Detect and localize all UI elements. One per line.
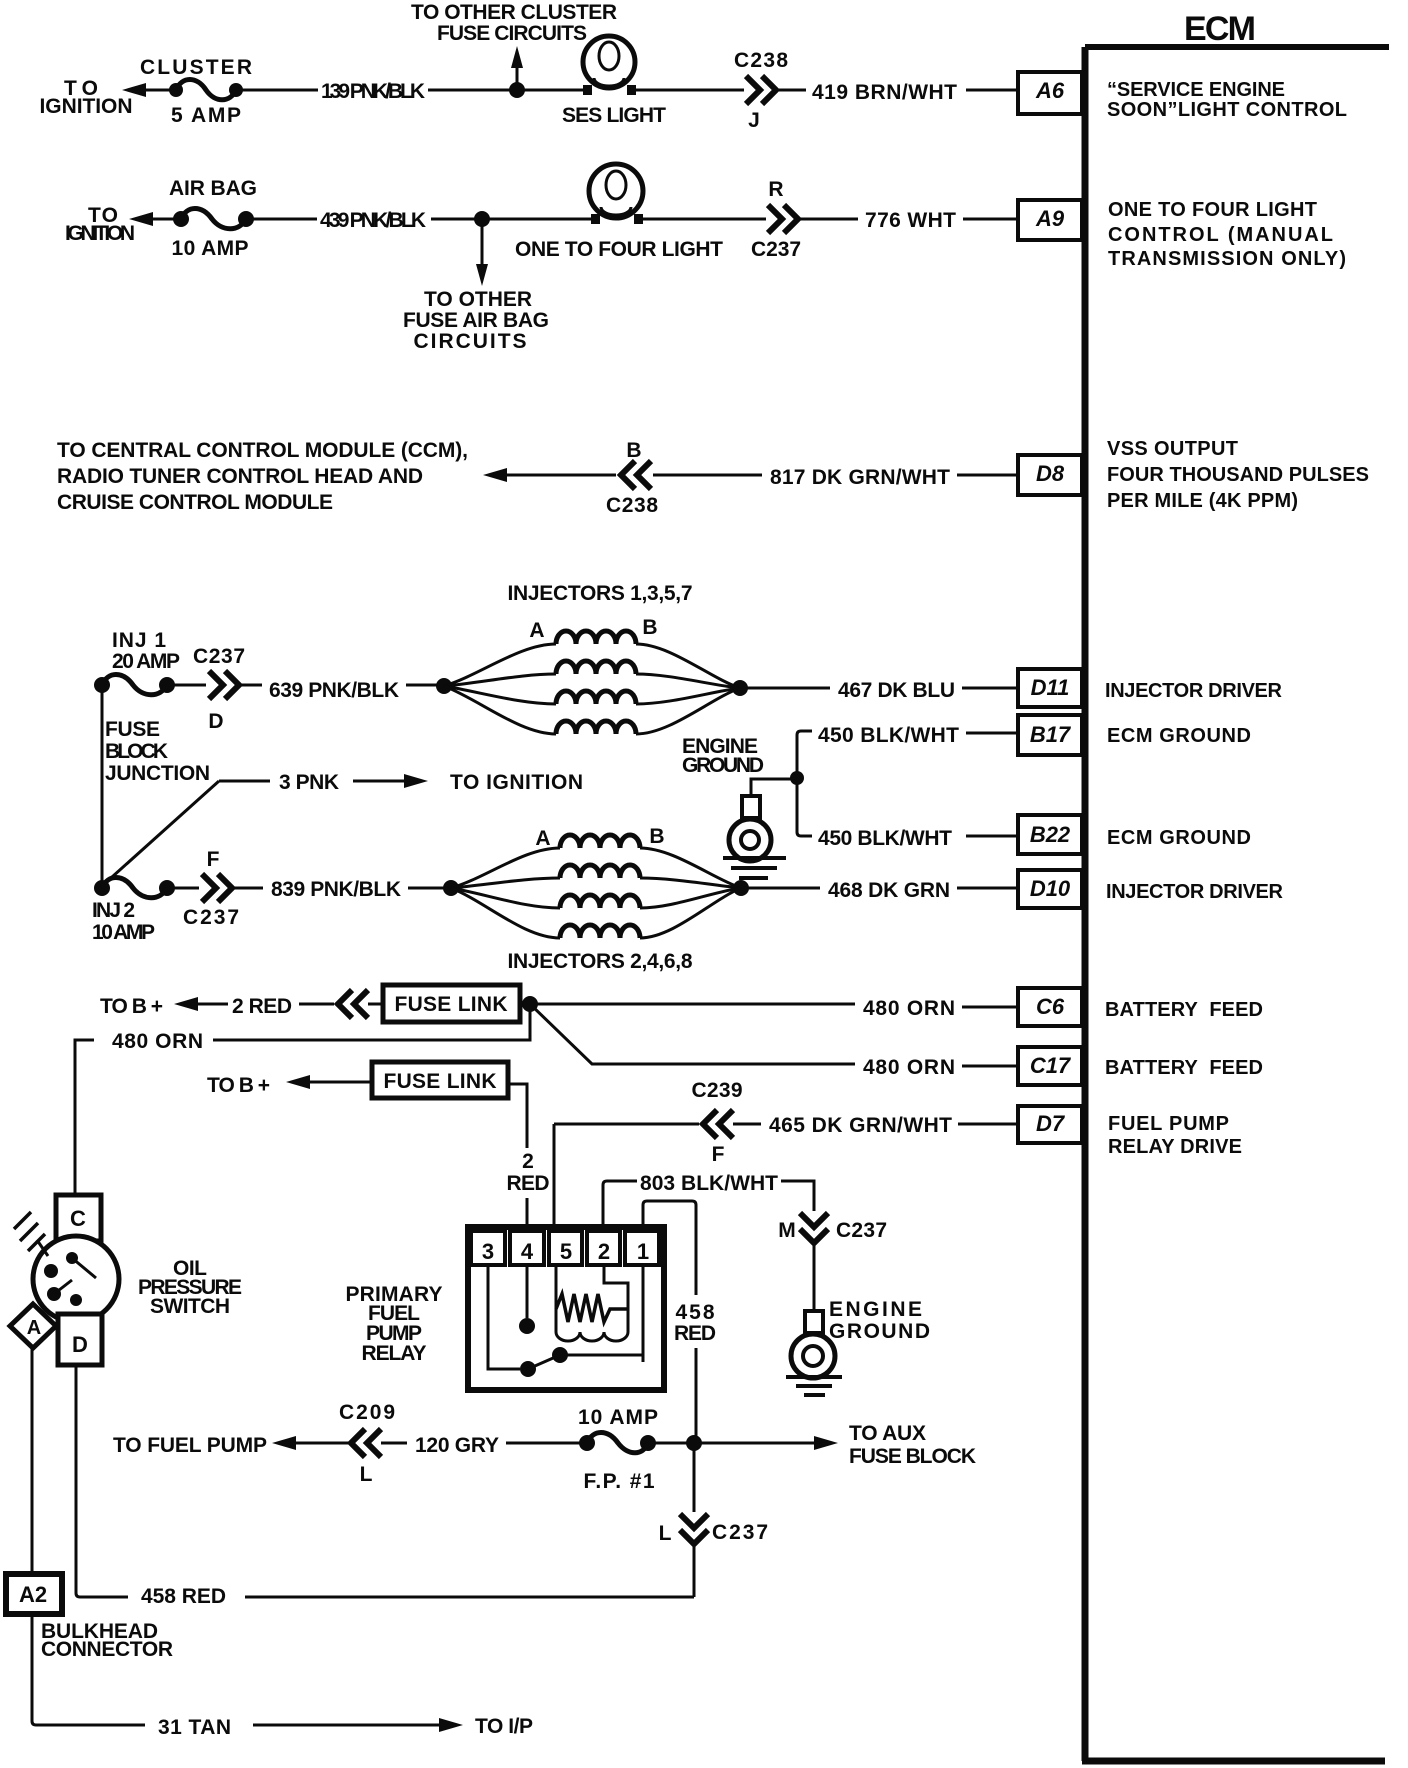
wire 776 WHT bbox=[800, 209, 1016, 232]
ECM module box bbox=[1082, 10, 1389, 1761]
svg-text:ECM GROUND: ECM GROUND bbox=[1107, 827, 1251, 849]
fuse link FUSE LINK (C6 feed) bbox=[368, 985, 520, 1022]
wire 817 DK GRN/WHT bbox=[653, 466, 1016, 489]
wire 450 BLK/WHT to B22 with ground bracket bbox=[751, 735, 1016, 850]
connector C237 pin F bbox=[167, 848, 239, 929]
svg-text:BLOCK: BLOCK bbox=[105, 740, 168, 763]
relay internal: pin 3 to switch contact bbox=[488, 1265, 536, 1377]
svg-text:IGNITION: IGNITION bbox=[40, 95, 133, 118]
svg-text:A: A bbox=[535, 827, 550, 850]
wire SES lamp to connector C238 bbox=[636, 89, 744, 92]
wire from TO IGNITION arrow to fuse AIR BAG bbox=[151, 218, 181, 221]
svg-text:INJECTOR DRIVER: INJECTOR DRIVER bbox=[1106, 881, 1284, 903]
svg-text:B: B bbox=[649, 825, 664, 848]
wire 803 BLK/WHT bbox=[603, 1172, 814, 1230]
ECM pin B17 bbox=[1018, 715, 1082, 755]
svg-text:4: 4 bbox=[521, 1239, 534, 1264]
wire from D7 corner down to relay pin 5 bbox=[553, 1124, 556, 1230]
svg-text:FUSE AIR BAG: FUSE AIR BAG bbox=[403, 309, 549, 332]
svg-text:TO OTHER: TO OTHER bbox=[424, 288, 532, 311]
ground ENGINE GROUND (injector) bbox=[682, 735, 786, 878]
svg-text:INJ 2: INJ 2 bbox=[92, 899, 135, 922]
svg-text:INJECTOR DRIVER: INJECTOR DRIVER bbox=[1105, 680, 1283, 702]
svg-text:480 ORN: 480 ORN bbox=[863, 1056, 955, 1079]
junction node to other fuse air bag circuits bbox=[403, 211, 549, 353]
svg-text:10 AMP: 10 AMP bbox=[578, 1406, 658, 1429]
wire 2 RED bbox=[232, 995, 334, 1018]
svg-text:CRUISE CONTROL MODULE: CRUISE CONTROL MODULE bbox=[57, 491, 333, 514]
svg-text:2: 2 bbox=[522, 1150, 534, 1173]
svg-text:ENGINE: ENGINE bbox=[829, 1298, 922, 1321]
svg-text:1: 1 bbox=[637, 1239, 649, 1264]
svg-text:480 ORN: 480 ORN bbox=[112, 1030, 203, 1053]
svg-text:TO B +: TO B + bbox=[207, 1074, 270, 1097]
svg-text:10 AMP: 10 AMP bbox=[92, 921, 155, 944]
ECM pin D11 bbox=[1018, 669, 1082, 707]
svg-text:“SERVICE ENGINE: “SERVICE ENGINE bbox=[1107, 79, 1285, 101]
wire 3 PNK to ignition bbox=[219, 771, 583, 794]
connector C209 pin L bbox=[339, 1401, 395, 1486]
svg-text:VSS OUTPUT: VSS OUTPUT bbox=[1107, 438, 1238, 460]
wire 467 DK BLU bbox=[740, 679, 1016, 702]
svg-text:PER MILE (4K PPM): PER MILE (4K PPM) bbox=[1107, 490, 1298, 512]
junction node battery feed bbox=[522, 996, 538, 1012]
node TO IGNITION (row 2) bbox=[65, 204, 153, 245]
svg-text:BATTERY FEED: BATTERY FEED bbox=[1105, 1057, 1263, 1079]
wire 2 RED down to relay pin 4 bbox=[507, 1084, 550, 1230]
node TO B+ (fuel pump relay feed) bbox=[207, 1074, 372, 1097]
svg-text:FUSE CIRCUITS: FUSE CIRCUITS bbox=[437, 22, 587, 45]
node TO CENTRAL CONTROL MODULE (CCM) bbox=[57, 439, 468, 514]
wire 120 GRY bbox=[381, 1434, 587, 1457]
wire 468 DK GRN bbox=[741, 879, 1018, 902]
relay pin 4 bbox=[510, 1231, 544, 1265]
svg-text:D10: D10 bbox=[1030, 876, 1071, 901]
ECM pin D7 bbox=[1018, 1106, 1082, 1143]
oil pressure switch terminal C box bbox=[56, 1195, 101, 1241]
injector coil group 2,4,6,8 between nodes A and B bbox=[443, 825, 749, 938]
wire from chevron L down to 458 RED run bbox=[693, 1546, 696, 1597]
fuse INJ 2 10 AMP bbox=[92, 878, 175, 945]
svg-text:458 RED: 458 RED bbox=[141, 1585, 226, 1608]
svg-text:FUSE BLOCK: FUSE BLOCK bbox=[849, 1445, 976, 1468]
svg-text:A: A bbox=[529, 619, 544, 642]
svg-text:31 TAN: 31 TAN bbox=[158, 1716, 231, 1739]
svg-text:ECM: ECM bbox=[1184, 10, 1256, 48]
svg-text:C238: C238 bbox=[606, 494, 658, 517]
fuse link FUSE LINK (relay feed) bbox=[372, 1062, 508, 1098]
svg-text:639 PNK/BLK: 639 PNK/BLK bbox=[269, 679, 399, 702]
svg-text:RED: RED bbox=[507, 1172, 550, 1195]
svg-text:D7: D7 bbox=[1036, 1111, 1066, 1136]
oil pressure switch terminal A diamond bbox=[10, 1304, 56, 1348]
svg-text:TO I/P: TO I/P bbox=[475, 1715, 533, 1738]
svg-text:458: 458 bbox=[676, 1301, 715, 1324]
lamp SES LIGHT bbox=[562, 36, 666, 127]
svg-text:D: D bbox=[208, 710, 223, 733]
svg-text:A2: A2 bbox=[19, 1582, 47, 1607]
svg-text:5: 5 bbox=[560, 1239, 572, 1264]
wire from TO IGNITION arrow to fuse CLUSTER bbox=[144, 89, 176, 92]
wire 480 ORN to C6 bbox=[530, 997, 1016, 1020]
connector A2 BULKHEAD CONNECTOR bbox=[6, 1574, 173, 1661]
ECM pin A9 bbox=[1018, 200, 1082, 240]
svg-text:ONE TO FOUR LIGHT: ONE TO FOUR LIGHT bbox=[515, 238, 723, 261]
wire 439 PNK/BLK bbox=[246, 209, 595, 232]
wire VSS output to CCM with left arrow bbox=[483, 468, 616, 482]
svg-text:B: B bbox=[626, 439, 641, 462]
ECM pin B22 bbox=[1018, 815, 1082, 854]
wire fuel pump relay drive from D7 bbox=[554, 1079, 1017, 1166]
relay internal: switch arm to pin 1 contact bbox=[528, 1265, 643, 1369]
connector C238 pin J bbox=[734, 49, 788, 132]
svg-text:FUSE: FUSE bbox=[105, 718, 160, 741]
wire 31 TAN to I/P bbox=[32, 1614, 533, 1739]
svg-text:C239: C239 bbox=[692, 1079, 743, 1102]
fuse AIR BAG 10 AMP bbox=[169, 177, 257, 260]
svg-text:SES LIGHT: SES LIGHT bbox=[562, 104, 666, 127]
connector C237 pin M bbox=[778, 1213, 887, 1243]
label ONE TO FOUR LIGHT CONTROL bbox=[1108, 199, 1346, 270]
svg-text:803 BLK/WHT: 803 BLK/WHT bbox=[640, 1172, 778, 1195]
wire 839 PNK/BLK bbox=[234, 878, 451, 901]
fuse F.P. #1 10 AMP bbox=[578, 1406, 658, 1493]
svg-text:GROUND: GROUND bbox=[829, 1320, 930, 1343]
svg-text:CIRCUITS: CIRCUITS bbox=[414, 330, 527, 353]
svg-text:TO B +: TO B + bbox=[100, 995, 163, 1018]
svg-text:RELAY: RELAY bbox=[362, 1342, 427, 1365]
wire 139 PNK/BLK bbox=[236, 80, 587, 103]
oil pressure switch terminal D box bbox=[58, 1314, 102, 1365]
relay pin 3 bbox=[471, 1231, 505, 1265]
oil pressure switch case hash marks bbox=[14, 1212, 48, 1256]
junction node to other cluster fuse circuits bbox=[411, 1, 617, 98]
wire TO AUX FUSE BLOCK with right arrow bbox=[694, 1422, 976, 1468]
svg-text:AIR BAG: AIR BAG bbox=[169, 177, 257, 200]
svg-text:L: L bbox=[360, 1463, 373, 1486]
connector C237 pin D bbox=[167, 645, 245, 733]
svg-text:120 GRY: 120 GRY bbox=[415, 1434, 499, 1457]
svg-text:ONE TO FOUR LIGHT: ONE TO FOUR LIGHT bbox=[1108, 199, 1317, 221]
svg-text:A6: A6 bbox=[1035, 78, 1065, 103]
wire 458 RED bottom run to bulkhead bbox=[76, 1365, 694, 1608]
svg-text:A: A bbox=[27, 1317, 41, 1339]
svg-text:RADIO TUNER CONTROL HEAD AND: RADIO TUNER CONTROL HEAD AND bbox=[57, 465, 423, 488]
relay pin 1 bbox=[625, 1231, 659, 1265]
svg-text:TO FUEL PUMP: TO FUEL PUMP bbox=[113, 1434, 267, 1457]
svg-text:JUNCTION: JUNCTION bbox=[105, 762, 210, 785]
svg-text:SWITCH: SWITCH bbox=[150, 1295, 230, 1318]
svg-text:TO IGNITION: TO IGNITION bbox=[450, 771, 583, 794]
svg-text:2 RED: 2 RED bbox=[232, 995, 292, 1018]
ECM pin C6 bbox=[1018, 988, 1082, 1026]
svg-text:468 DK GRN: 468 DK GRN bbox=[828, 879, 950, 902]
svg-text:INJECTORS 2,4,6,8: INJECTORS 2,4,6,8 bbox=[508, 950, 693, 973]
svg-text:RELAY DRIVE: RELAY DRIVE bbox=[1108, 1136, 1242, 1158]
svg-text:FUSE LINK: FUSE LINK bbox=[384, 1070, 497, 1093]
svg-text:ECM GROUND: ECM GROUND bbox=[1107, 725, 1251, 747]
wire 480 ORN to C17 (diagonal from junction) bbox=[530, 1004, 1016, 1079]
svg-text:TO OTHER CLUSTER: TO OTHER CLUSTER bbox=[411, 1, 617, 24]
svg-text:B22: B22 bbox=[1030, 822, 1071, 847]
svg-text:10 AMP: 10 AMP bbox=[172, 237, 249, 260]
svg-text:C237: C237 bbox=[751, 238, 801, 261]
wire 458 RED from relay pin 1 down bbox=[643, 1201, 716, 1443]
svg-text:C17: C17 bbox=[1030, 1053, 1072, 1078]
svg-text:J: J bbox=[748, 109, 760, 132]
injector coil group 1,3,5,7 between nodes A and B bbox=[436, 616, 748, 734]
wire 480 ORN down the left side to oil pressure switch bbox=[75, 1004, 530, 1195]
svg-text:F: F bbox=[712, 1143, 725, 1166]
ECM pin A6 bbox=[1018, 72, 1082, 114]
label FUEL PUMP RELAY DRIVE bbox=[1108, 1113, 1242, 1158]
svg-text:TRANSMISSION ONLY): TRANSMISSION ONLY) bbox=[1108, 248, 1346, 270]
svg-text:FUEL PUMP: FUEL PUMP bbox=[1108, 1113, 1229, 1135]
svg-text:419 BRN/WHT: 419 BRN/WHT bbox=[812, 81, 957, 104]
svg-text:FOUR THOUSAND PULSES: FOUR THOUSAND PULSES bbox=[1107, 464, 1369, 486]
connector C237 pin R bbox=[751, 178, 801, 261]
svg-text:B17: B17 bbox=[1030, 722, 1072, 747]
junction node 458 RED / fuse / aux feed bbox=[648, 1435, 702, 1451]
svg-text:B: B bbox=[642, 616, 657, 639]
label "SERVICE ENGINE SOON" LIGHT CONTROL bbox=[1107, 79, 1347, 121]
relay internal: pin 4 armature lead with dot bbox=[519, 1265, 535, 1334]
connector C238 pin B bbox=[606, 439, 658, 517]
svg-text:C: C bbox=[70, 1206, 86, 1231]
lamp ONE TO FOUR LIGHT bbox=[515, 164, 723, 261]
svg-text:GROUND: GROUND bbox=[682, 754, 764, 777]
svg-text:139 PNK/BLK: 139 PNK/BLK bbox=[321, 80, 425, 103]
fuse CLUSTER 5 AMP bbox=[140, 56, 252, 127]
node TO B+ (battery feed row) bbox=[100, 995, 228, 1018]
fuse INJ 1 20 AMP bbox=[94, 629, 180, 695]
svg-text:D8: D8 bbox=[1036, 461, 1065, 486]
relay PRIMARY FUEL PUMP RELAY bbox=[346, 1227, 665, 1390]
wire 419 BRN/WHT bbox=[779, 81, 1016, 104]
svg-text:C238: C238 bbox=[734, 49, 788, 72]
svg-text:CONTROL (MANUAL: CONTROL (MANUAL bbox=[1108, 224, 1333, 246]
svg-text:817 DK GRN/WHT: 817 DK GRN/WHT bbox=[770, 466, 950, 489]
wire oil switch A terminal down to bulkhead connector A2 bbox=[31, 1348, 34, 1572]
wire lamp to connector C237 bbox=[643, 218, 766, 221]
svg-text:R: R bbox=[768, 178, 783, 201]
svg-text:C209: C209 bbox=[339, 1401, 395, 1424]
svg-text:TO CENTRAL CONTROL MODULE (CCM: TO CENTRAL CONTROL MODULE (CCM), bbox=[57, 439, 468, 462]
svg-text:INJECTORS 1,3,5,7: INJECTORS 1,3,5,7 bbox=[508, 582, 693, 605]
svg-text:467 DK BLU: 467 DK BLU bbox=[838, 679, 955, 702]
svg-text:D: D bbox=[72, 1332, 88, 1357]
node TO IGNITION (row 1) bbox=[40, 77, 147, 118]
svg-text:F: F bbox=[207, 848, 220, 871]
wire chevron M to engine ground bbox=[813, 1245, 816, 1311]
wire 450 BLK/WHT to B17 bbox=[797, 724, 1016, 747]
svg-text:776 WHT: 776 WHT bbox=[865, 209, 956, 232]
svg-text:465 DK GRN/WHT: 465 DK GRN/WHT bbox=[769, 1114, 952, 1137]
wire 639 PNK/BLK bbox=[241, 679, 444, 702]
relay internal: coil between pin 5 and pin 2 bbox=[556, 1265, 628, 1341]
connector chevron (battery feed) bbox=[338, 990, 368, 1018]
svg-text:480 ORN: 480 ORN bbox=[863, 997, 955, 1020]
svg-text:450 BLK/WHT: 450 BLK/WHT bbox=[818, 724, 959, 747]
svg-text:5 AMP: 5 AMP bbox=[171, 104, 241, 127]
svg-text:BATTERY FEED: BATTERY FEED bbox=[1105, 999, 1263, 1021]
ECM pin C17 bbox=[1018, 1047, 1082, 1085]
svg-text:FUSE LINK: FUSE LINK bbox=[395, 993, 508, 1016]
svg-text:C237: C237 bbox=[183, 906, 239, 929]
ECM pin D8 bbox=[1018, 455, 1082, 495]
connector C237 pin L (down chevron) bbox=[659, 1443, 768, 1545]
svg-text:C237: C237 bbox=[712, 1521, 768, 1544]
svg-text:CONNECTOR: CONNECTOR bbox=[41, 1638, 173, 1661]
svg-text:C237: C237 bbox=[193, 645, 245, 668]
svg-text:RED: RED bbox=[674, 1322, 716, 1345]
svg-text:INJ 1: INJ 1 bbox=[112, 629, 166, 652]
wire TO FUEL PUMP with left arrow bbox=[113, 1434, 349, 1457]
ECM pin D10 bbox=[1018, 870, 1082, 908]
ground ENGINE GROUND (relay) bbox=[786, 1298, 930, 1395]
switch OIL PRESSURE SWITCH bbox=[138, 1257, 242, 1318]
svg-text:3 PNK: 3 PNK bbox=[279, 771, 339, 794]
svg-text:D11: D11 bbox=[1031, 675, 1070, 700]
svg-text:2: 2 bbox=[598, 1239, 610, 1264]
svg-text:SOON”LIGHT CONTROL: SOON”LIGHT CONTROL bbox=[1107, 99, 1347, 121]
svg-text:TO AUX: TO AUX bbox=[849, 1422, 926, 1445]
node FUSE BLOCK JUNCTION bbox=[102, 685, 219, 888]
svg-text:IGNITION: IGNITION bbox=[65, 222, 135, 245]
svg-text:439 PNK/BLK: 439 PNK/BLK bbox=[320, 209, 426, 232]
svg-text:A9: A9 bbox=[1035, 206, 1065, 231]
svg-text:C237: C237 bbox=[836, 1219, 887, 1242]
svg-text:450 BLK/WHT: 450 BLK/WHT bbox=[818, 827, 952, 850]
svg-text:3: 3 bbox=[482, 1239, 494, 1264]
svg-text:20 AMP: 20 AMP bbox=[112, 650, 180, 673]
label VSS OUTPUT bbox=[1107, 438, 1369, 512]
svg-text:M: M bbox=[778, 1219, 796, 1242]
svg-text:839 PNK/BLK: 839 PNK/BLK bbox=[271, 878, 401, 901]
svg-text:L: L bbox=[659, 1522, 672, 1545]
relay pin 5 bbox=[549, 1231, 582, 1265]
oil pressure switch body circle bbox=[33, 1236, 119, 1322]
svg-text:C6: C6 bbox=[1036, 994, 1065, 1019]
relay pin 2 bbox=[587, 1231, 620, 1265]
